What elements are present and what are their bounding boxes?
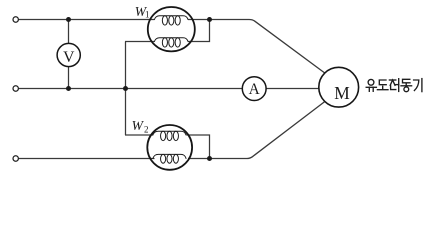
- svg-text:2: 2: [144, 125, 149, 135]
- wattmeter W1 current coil: [154, 16, 188, 25]
- svg-text:M: M: [334, 83, 349, 103]
- wattmeter W2 current coil: [153, 154, 186, 163]
- wattmeter W1 potential coil: [154, 38, 188, 47]
- svg-text:1: 1: [145, 10, 150, 20]
- char JEON: [389, 79, 395, 81]
- ammeter A: [242, 77, 266, 101]
- wire bottom line right and diagonal to motor: [188, 102, 325, 159]
- wattmeter W2 case: [147, 125, 192, 170]
- wire voltmeter lower lead: [68, 67, 70, 89]
- wire middle line right: [266, 88, 319, 90]
- junction dot middle line common potential: [123, 86, 128, 91]
- wire W1 potential coil right stub: [188, 20, 210, 42]
- wattmeter W2 potential coil: [153, 131, 186, 140]
- char GI: [414, 80, 419, 91]
- wire common potential vertical: [125, 42, 127, 136]
- junction dot middle line at voltmeter: [66, 86, 71, 91]
- terminal bottom phase: [13, 156, 18, 161]
- motor M: [319, 67, 359, 107]
- wire W2 potential coil left stub: [125, 134, 153, 136]
- char DONG: [403, 79, 411, 83]
- wire W1 potential coil left stub: [125, 41, 155, 43]
- terminal middle phase: [13, 86, 18, 91]
- wire top line left: [18, 19, 154, 21]
- wire top line right and diagonal to motor: [188, 20, 325, 73]
- voltmeter V: [57, 43, 80, 66]
- wattmeter W1 case: [148, 7, 195, 51]
- junction dot top line at W1 potential: [207, 17, 212, 22]
- junction dot bottom line at W2 potential: [207, 156, 212, 161]
- terminal top phase: [13, 17, 18, 22]
- wire W2 potential coil right stub: [187, 135, 210, 159]
- char YU: [368, 79, 374, 85]
- label induction motor (Korean: yu-do-jeon-dong-gi) drawn as strokes: [366, 79, 422, 92]
- svg-text:A: A: [249, 81, 260, 98]
- char DO: [379, 80, 386, 85]
- junction dot top line at voltmeter: [66, 17, 71, 22]
- wire bottom line left: [18, 158, 154, 160]
- wire middle line left: [18, 88, 242, 90]
- svg-text:V: V: [63, 49, 75, 66]
- wire voltmeter upper lead: [68, 20, 70, 44]
- svg-text:W: W: [132, 118, 145, 133]
